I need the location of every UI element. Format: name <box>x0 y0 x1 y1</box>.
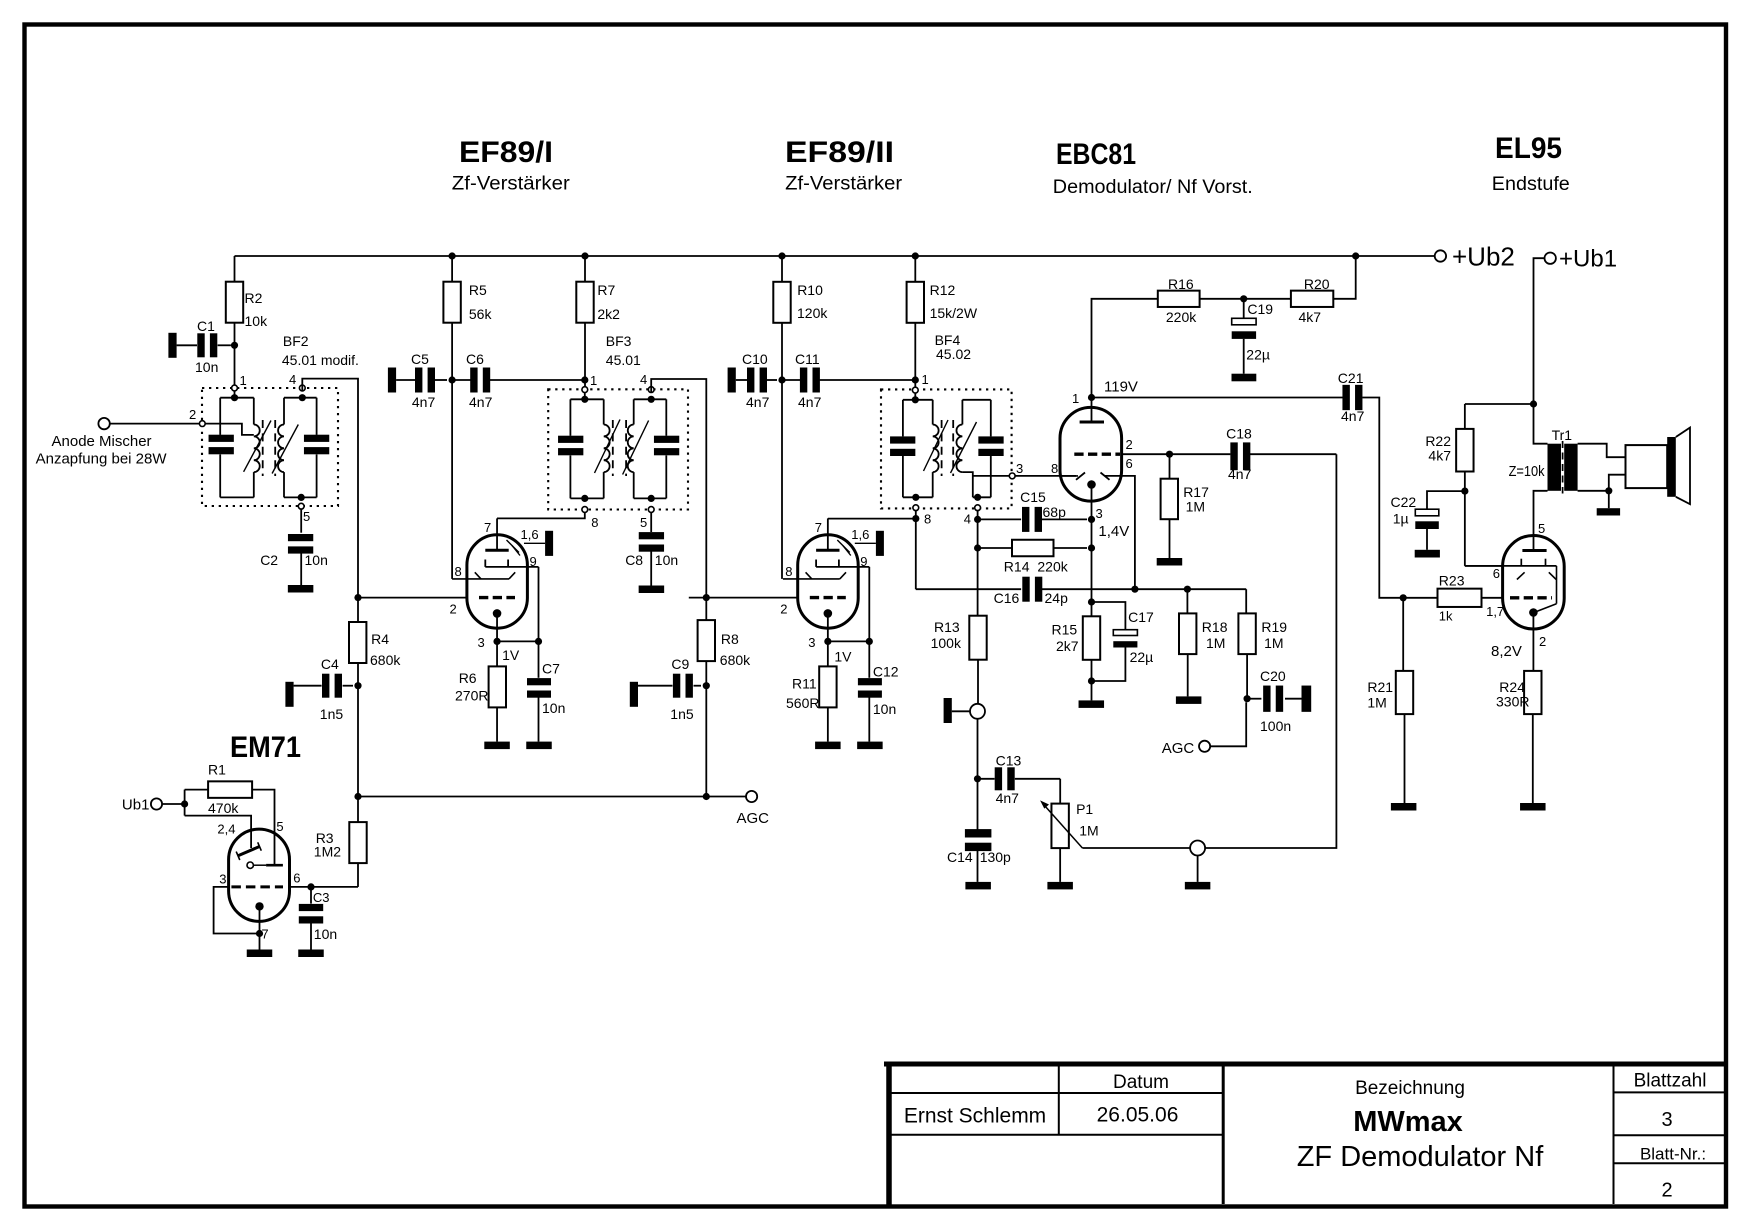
node C1-R2 <box>231 342 238 349</box>
ground under R6 <box>484 742 510 750</box>
BF4 secondary cap branch <box>990 400 992 437</box>
ground under chassis terminal <box>1185 882 1211 890</box>
svg-text:1: 1 <box>922 372 929 387</box>
wire rail to R10 <box>781 256 783 282</box>
svg-text:330R: 330R <box>1496 694 1529 710</box>
EBC81 diode plates <box>1076 473 1085 480</box>
ground under R15 <box>1079 700 1105 708</box>
BF2 primary top rail <box>220 397 254 399</box>
wire +Ub1 feed to Tr1 and R22 <box>1534 258 1548 444</box>
svg-text:7: 7 <box>484 520 491 535</box>
capacitor C16 <box>1022 577 1029 602</box>
svg-text:220k: 220k <box>1037 559 1068 575</box>
suppressor grid diagonals <box>507 540 520 553</box>
title block vertical dividers <box>1058 1064 1060 1135</box>
node R16-C19-R20 <box>1240 295 1247 302</box>
svg-text:7: 7 <box>815 520 822 535</box>
capacitor C1 <box>168 333 176 358</box>
svg-text:470k: 470k <box>208 800 239 816</box>
wire R18 to ground <box>1187 654 1189 696</box>
svg-text:3: 3 <box>808 635 815 650</box>
svg-text:R11: R11 <box>792 676 817 692</box>
node BF4 pin4 - C15 <box>974 516 981 523</box>
node rail-R12 <box>912 252 919 259</box>
BF2 pin 2 tap wire <box>205 424 254 435</box>
svg-text:4: 4 <box>640 372 647 387</box>
BF4 node pin1 inner <box>912 396 919 403</box>
svg-text:R15: R15 <box>1052 622 1078 638</box>
wire EBC81 anode up to R16 <box>1092 299 1158 398</box>
svg-text:Bezeichnung: Bezeichnung <box>1355 1078 1465 1099</box>
resistor R18 <box>1186 589 1188 613</box>
node C5-C6-R5 <box>449 376 456 383</box>
svg-text:560R: 560R <box>786 695 819 711</box>
svg-text:5: 5 <box>303 509 310 524</box>
EL95 screen grid bracket pin 6 <box>1465 565 1557 567</box>
svg-text:1,6: 1,6 <box>851 527 869 542</box>
node EM71 cathode pin7 <box>256 930 263 937</box>
wire rail to R2 <box>234 256 236 282</box>
svg-text:R5: R5 <box>469 282 487 298</box>
svg-text:C11: C11 <box>795 351 820 367</box>
svg-text:R8: R8 <box>721 631 739 647</box>
wire EM71 pin6 to R3 and C3 <box>290 886 359 888</box>
svg-text:10n: 10n <box>873 701 896 717</box>
pins 1,6 chassis stub <box>855 542 876 544</box>
IF transformer BF2 dotted box <box>202 388 338 506</box>
svg-text:45.01: 45.01 <box>606 352 641 368</box>
node rail-R5 <box>449 252 456 259</box>
anode plate <box>816 549 839 552</box>
resistor R5 <box>443 282 460 323</box>
svg-text:4n7: 4n7 <box>996 790 1020 806</box>
resistor R12 <box>907 282 924 323</box>
resistor R13 <box>969 616 986 660</box>
wire R4 to C4 node <box>357 663 359 797</box>
svg-text:Anzapfung bei 28W: Anzapfung bei 28W <box>36 451 168 468</box>
wire bus corner down to R19 <box>1245 589 1247 613</box>
wire C13 to P1 <box>1059 779 1061 804</box>
node R15 bottom <box>1088 677 1095 684</box>
svg-text:15k/2W: 15k/2W <box>930 305 978 321</box>
ground under C14 <box>965 882 991 890</box>
svg-text:Anode Mischer: Anode Mischer <box>52 433 152 450</box>
svg-text:10n: 10n <box>195 359 218 375</box>
EL95 anode plate <box>1522 549 1546 552</box>
resistor R10 <box>773 282 790 323</box>
capacitor C5 <box>388 368 396 393</box>
ground under C22 <box>1415 550 1440 558</box>
wire BF3 pin8 to EF89/I anode <box>497 512 585 518</box>
svg-text:1V: 1V <box>834 649 852 665</box>
svg-text:C20: C20 <box>1260 668 1286 684</box>
terminal Ub1 (EM71) <box>151 798 162 809</box>
svg-text:1M: 1M <box>1186 499 1205 515</box>
BF3 node pin8 <box>581 495 588 502</box>
BF4 primary top rail <box>903 399 933 401</box>
svg-text:AGC: AGC <box>1162 740 1195 757</box>
node R14 left <box>974 544 981 551</box>
capacitor C2 <box>300 509 302 533</box>
BF3 node pin1 inner <box>581 396 588 403</box>
svg-text:2: 2 <box>189 407 196 422</box>
BF4 pin 4 terminal <box>975 505 981 511</box>
wire R8 to C9 node <box>705 661 707 796</box>
wire R13 to jack <box>977 660 979 704</box>
svg-text:1: 1 <box>240 373 247 388</box>
svg-text:Ernst Schlemm: Ernst Schlemm <box>904 1105 1046 1128</box>
capacitor C6 <box>452 379 471 381</box>
svg-text:680k: 680k <box>720 652 751 668</box>
svg-text:2k2: 2k2 <box>597 306 620 322</box>
ground under C12 <box>857 742 883 750</box>
capacitor C20 <box>1247 698 1261 700</box>
capacitor C21 <box>1342 385 1349 410</box>
svg-text:2k7: 2k7 <box>1056 638 1079 654</box>
capacitor C17 (electrolytic) <box>1092 602 1126 630</box>
EL95 internal screen-cathode link <box>1556 566 1558 604</box>
svg-text:C17: C17 <box>1128 609 1154 625</box>
BF4 pin 3 terminal <box>1009 473 1015 479</box>
IF transformer BF3 dotted box <box>548 389 688 509</box>
svg-text:2: 2 <box>780 602 787 617</box>
node C3 <box>307 883 314 890</box>
BF2 node pin1 <box>231 394 238 401</box>
resistor R19 <box>1238 613 1255 654</box>
suppressor grid diagonals <box>837 540 850 553</box>
svg-text:R16: R16 <box>1168 276 1194 292</box>
wire jack down to C13/C14 node <box>977 719 979 830</box>
svg-text:C3: C3 <box>313 890 330 905</box>
EL95 control grid dashed pins 1,7 <box>1510 596 1552 599</box>
svg-text:1n5: 1n5 <box>320 706 344 722</box>
node cathode bypass <box>535 638 542 645</box>
svg-text:3: 3 <box>1016 461 1023 476</box>
ground under EM71 <box>247 950 273 958</box>
svg-text:EF89/I: EF89/I <box>459 136 553 169</box>
BF2 pin 2 terminal <box>199 421 205 427</box>
svg-text:C5: C5 <box>411 351 429 367</box>
svg-text:C15: C15 <box>1020 489 1046 505</box>
wire R21 to ground <box>1404 714 1406 803</box>
ground under C7 <box>526 742 552 750</box>
svg-text:C2: C2 <box>260 552 278 568</box>
wire C16 bus <box>916 588 1021 590</box>
ground under R17 <box>1157 558 1183 566</box>
svg-text:1M: 1M <box>1367 695 1386 711</box>
resistor R8 <box>705 598 707 621</box>
terminal AGC (right) <box>1199 741 1210 752</box>
BF2 core <box>262 420 264 476</box>
speaker <box>1626 445 1668 488</box>
svg-text:Endstufe: Endstufe <box>1492 174 1570 195</box>
svg-text:1M: 1M <box>1079 823 1098 839</box>
svg-text:EBC81: EBC81 <box>1056 138 1136 171</box>
wire EM71 pin3 loop to cathode <box>214 887 257 934</box>
resistor R16 <box>1158 291 1200 307</box>
capacitor C13 <box>978 778 995 780</box>
resistor R15 <box>1083 616 1100 660</box>
node C13-C14 <box>974 775 981 782</box>
svg-text:5: 5 <box>640 515 647 530</box>
BF4 primary cap branch <box>902 400 904 437</box>
resistor R14 <box>978 547 1012 549</box>
svg-text:220k: 220k <box>1166 309 1197 325</box>
resistor R11 <box>827 641 829 666</box>
wire R19 to C20 node <box>1246 654 1248 699</box>
wire rail to R5 <box>451 256 453 282</box>
svg-text:C10: C10 <box>742 351 768 367</box>
node cathode bypass <box>866 638 873 645</box>
chassis terminal in volume line <box>1190 841 1205 856</box>
resistor R23 <box>1438 589 1482 607</box>
wire cathode down to R15 <box>1091 519 1093 616</box>
svg-text:R21: R21 <box>1367 679 1393 695</box>
svg-text:R4: R4 <box>371 631 389 647</box>
BF4 primary bottom rail <box>903 496 933 498</box>
svg-text:2: 2 <box>1661 1180 1672 1202</box>
wire R2 to BF2 pin1 <box>234 323 236 385</box>
svg-text:100n: 100n <box>1260 718 1291 734</box>
resistor R4 <box>357 598 359 622</box>
svg-text:24p: 24p <box>1045 590 1069 606</box>
wire P1 to ground <box>1059 848 1061 882</box>
svg-text:AGC: AGC <box>737 810 770 827</box>
resistor R6 <box>496 641 498 666</box>
node BF3 pin1 <box>581 376 588 383</box>
resistor R21 <box>1402 598 1404 671</box>
svg-text:6: 6 <box>1493 566 1500 581</box>
capacitor C7 <box>538 641 540 677</box>
BF3 pin 1 terminal <box>582 387 588 393</box>
BF3 node pin4 <box>648 396 655 403</box>
EM71 getter dot <box>255 902 263 910</box>
svg-text:P1: P1 <box>1076 801 1093 817</box>
ground under R21 <box>1391 803 1417 811</box>
wire BF4 pin8 to EF89/II anode and down to C16 bus <box>915 511 917 590</box>
BF3 secondary coil <box>633 399 635 424</box>
wire R11 to ground <box>827 707 829 741</box>
svg-text:10n: 10n <box>305 552 328 568</box>
svg-text:R13: R13 <box>934 619 960 635</box>
EBC81 anode plate pin 1 <box>1080 421 1104 424</box>
node cathode pin3 <box>1088 516 1095 523</box>
BF2 pin 1 terminal <box>232 385 238 391</box>
svg-text:BF2: BF2 <box>283 333 309 349</box>
svg-text:10n: 10n <box>655 552 678 568</box>
wire screen node to EL95 pin6 <box>1465 565 1504 567</box>
svg-text:R7: R7 <box>597 282 615 298</box>
node speaker return <box>1605 487 1612 494</box>
BF4 secondary coil <box>961 400 963 425</box>
svg-text:119V: 119V <box>1104 379 1138 396</box>
svg-text:C7: C7 <box>542 661 560 677</box>
svg-text:4n7: 4n7 <box>746 394 770 410</box>
wire 119V line to C21 <box>1092 397 1343 399</box>
svg-text:+Ub2: +Ub2 <box>1452 242 1515 272</box>
svg-text:C6: C6 <box>466 351 484 367</box>
wire R24 to ground <box>1532 714 1534 803</box>
wire volume line to C18 branch <box>1205 454 1336 848</box>
BF3 primary top rail <box>570 398 603 400</box>
wire R10 to C10/C11 node and EF89/II pin8 <box>781 323 783 380</box>
svg-text:C18: C18 <box>1226 426 1252 442</box>
node BF4 pin1 <box>912 376 919 383</box>
BF3 pin 8 terminal <box>582 507 588 513</box>
resistor R7 <box>576 282 593 323</box>
svg-text:3: 3 <box>1096 506 1103 521</box>
svg-text:Blattzahl: Blattzahl <box>1634 1071 1707 1092</box>
BF2 pin 5 terminal <box>298 503 304 509</box>
node EBC81 pin1 119V <box>1088 394 1095 401</box>
svg-text:8: 8 <box>785 564 792 579</box>
node C4-R4 <box>354 682 361 689</box>
svg-text:9: 9 <box>860 554 867 569</box>
grid pin 8 wire into tube <box>452 578 509 580</box>
svg-text:1,4V: 1,4V <box>1098 523 1129 540</box>
wire BF4 pin3 to EBC81 diode pin8 <box>1015 475 1076 477</box>
EM71 cathode circle <box>247 862 253 868</box>
wire R15 to ground <box>1091 660 1093 701</box>
control grid dashed (pin 2) <box>358 597 467 599</box>
title block row lines right <box>1614 1091 1725 1093</box>
svg-text:R10: R10 <box>797 282 823 298</box>
svg-text:C21: C21 <box>1338 370 1364 386</box>
wire rail to R7 <box>584 256 586 282</box>
wire R17 to ground <box>1169 519 1171 558</box>
svg-text:270R: 270R <box>455 688 488 704</box>
tube EM71 envelope <box>229 829 290 921</box>
capacitor C19 (electrolytic) <box>1243 299 1245 319</box>
capacitor C4 <box>285 682 293 707</box>
wire R16 to C19/R20 node <box>1200 298 1291 300</box>
cathode getter dot <box>824 609 833 618</box>
svg-text:C12: C12 <box>873 664 899 680</box>
EL95 getter dot cathode pin 2 <box>1529 608 1538 617</box>
terminal +Ub2 <box>1435 250 1446 261</box>
EM71 grid dashed line pins 3,6 <box>231 885 283 888</box>
EBC81 getter dot and cathode pin 3 <box>1087 480 1096 489</box>
BF3 secondary cap branch <box>665 399 667 436</box>
wire Tr1 secondary bottom to speaker <box>1578 475 1626 491</box>
svg-text:2: 2 <box>1539 634 1546 649</box>
resistor R20 <box>1291 291 1333 307</box>
anode plate <box>485 549 508 552</box>
svg-text:4k7: 4k7 <box>1299 309 1322 325</box>
EBC81 diode pin8 wire segment <box>1060 475 1078 477</box>
svg-text:R20: R20 <box>1304 276 1330 292</box>
BF2 node pin5 <box>298 494 305 501</box>
wire speaker return to ground <box>1608 491 1610 508</box>
wire C11 to BF4 pin1 <box>820 379 916 381</box>
capacitor C11 <box>782 379 800 381</box>
BF2 primary cap branch <box>219 398 221 435</box>
BF4 primary coil <box>932 400 934 425</box>
pins 1,6 chassis stub <box>524 542 545 544</box>
svg-text:R19: R19 <box>1261 619 1287 635</box>
svg-text:R1: R1 <box>208 762 226 778</box>
IF transformer BF4 dotted box <box>881 389 1012 508</box>
resistor R24 <box>1524 671 1541 714</box>
tube EF89 envelope at x=798 <box>798 535 859 628</box>
svg-text:8: 8 <box>455 564 462 579</box>
EBC81 diode pin6 wire <box>1105 476 1135 589</box>
node pin2-R17 <box>1166 451 1173 458</box>
wire AGC bus <box>358 796 746 798</box>
wire +Ub2 supply rail <box>235 255 1435 257</box>
svg-text:Demodulator/ Nf Vorst.: Demodulator/ Nf Vorst. <box>1053 177 1253 198</box>
svg-text:6: 6 <box>1126 456 1133 471</box>
svg-text:4: 4 <box>964 512 971 527</box>
BF3 primary cap branch <box>569 399 571 436</box>
P1 wiper arrow <box>1043 803 1083 848</box>
svg-text:ZF Demodulator Nf: ZF Demodulator Nf <box>1297 1141 1545 1173</box>
svg-text:56k: 56k <box>469 306 493 322</box>
svg-text:Zf-Verstärker: Zf-Verstärker <box>452 174 571 195</box>
BF2 node pin4 <box>299 394 306 401</box>
svg-text:Blatt-Nr.:: Blatt-Nr.: <box>1640 1145 1706 1164</box>
wire Ub1 to EM71 grid pins 2,4 <box>185 816 252 848</box>
wire Tr1 primary bottom to EL95 anode pin5 <box>1534 491 1548 551</box>
wire chassis terminal stub <box>1197 856 1199 882</box>
svg-text:8: 8 <box>1051 461 1058 476</box>
jack terminal with chassis stub <box>944 698 952 723</box>
svg-text:EM71: EM71 <box>230 731 301 764</box>
capacitor C22 (electrolytic) <box>1427 491 1465 509</box>
node rail-R20 <box>1352 252 1359 259</box>
svg-text:2: 2 <box>1126 437 1133 452</box>
resistor R22 <box>1464 404 1466 429</box>
capacitor C18 <box>1230 442 1237 470</box>
resistor R3 <box>357 863 359 887</box>
ground under C2 <box>288 585 314 593</box>
svg-text:22µ: 22µ <box>1246 347 1270 363</box>
title block row lines left <box>892 1092 1224 1094</box>
svg-text:1V: 1V <box>502 647 520 663</box>
svg-text:10n: 10n <box>314 926 337 942</box>
node Ub1-R22 <box>1530 400 1537 407</box>
svg-text:5: 5 <box>276 819 283 834</box>
svg-text:3: 3 <box>219 872 226 887</box>
svg-text:Ub1: Ub1 <box>122 797 150 814</box>
tube EL95 envelope <box>1503 536 1565 630</box>
svg-text:C16: C16 <box>994 590 1020 606</box>
svg-text:C22: C22 <box>1391 494 1417 510</box>
screen grid bracket to pin 9 <box>816 566 869 568</box>
svg-text:C13: C13 <box>996 753 1022 769</box>
terminal +Ub1 <box>1545 253 1556 264</box>
svg-text:6: 6 <box>293 871 300 886</box>
svg-text:1n5: 1n5 <box>670 706 694 722</box>
capacitor C9 <box>630 682 638 707</box>
svg-text:4n7: 4n7 <box>1341 408 1365 424</box>
BF2 pin 4 terminal <box>299 385 305 391</box>
svg-text:3: 3 <box>478 635 485 650</box>
svg-text:+Ub1: +Ub1 <box>1559 246 1617 273</box>
wire R20 up to +Ub2 rail <box>1333 256 1355 299</box>
BF2 secondary bottom rail <box>284 496 317 498</box>
node rail-R7 <box>581 252 588 259</box>
svg-text:4n7: 4n7 <box>412 394 436 410</box>
EM71 grid bar pins 2,4 <box>238 847 260 856</box>
tube EF89 envelope at x=467 <box>467 535 528 628</box>
screen grid bracket to pin 9 <box>485 566 538 568</box>
svg-text:8,2V: 8,2V <box>1491 643 1522 660</box>
svg-text:BF3: BF3 <box>606 333 632 349</box>
BF4 core <box>941 420 943 476</box>
node grid EF89/II (R8 top) <box>703 594 710 601</box>
terminal AGC (left) <box>746 791 757 802</box>
